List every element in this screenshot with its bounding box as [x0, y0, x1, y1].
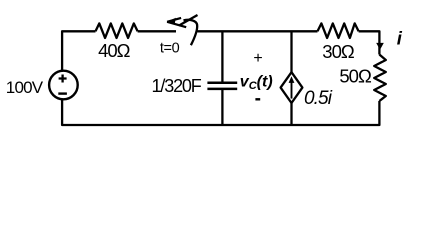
resistor R2 30ohm zigzag: [318, 23, 359, 38]
svg-text:+: +: [253, 50, 262, 67]
wire: left vertical + top-left run to R1: [62, 31, 95, 70]
label minus below vC(t): [255, 98, 260, 100]
wire: switch right contact to R2, through nodes: [198, 30, 318, 32]
svg-text:t=0: t=0: [160, 41, 180, 57]
switch t=0 arrowhead arms: [167, 18, 186, 27]
current arrow i on right wire: [376, 43, 384, 50]
wire: R3 bottom, bottom run, up to source bottom: [62, 100, 379, 125]
voltage source V1 circle: [49, 71, 78, 100]
svg-text:1/320F: 1/320F: [152, 76, 202, 96]
svg-text:50Ω: 50Ω: [339, 66, 372, 87]
wire: R2 to top-right corner and down to R3: [359, 31, 380, 54]
switch t=0 blade: [179, 15, 198, 26]
switch t=0 motion arc: [184, 20, 198, 45]
svg-text:vC(t): vC(t): [240, 74, 273, 93]
wire: R1 to switch left contact: [138, 30, 176, 32]
svg-text:40Ω: 40Ω: [98, 40, 131, 61]
svg-text:i: i: [397, 28, 403, 49]
resistor R3 50ohm vertical zigzag: [374, 55, 386, 102]
capacitor C plates: [207, 83, 237, 89]
resistor R1 40ohm zigzag: [96, 23, 138, 38]
dependent source arrow shaft: [291, 81, 293, 99]
voltage source minus sign: [58, 92, 67, 94]
dependent source branch bottom wire: [290, 103, 292, 125]
dependent current source diamond: [281, 72, 303, 103]
voltage source plus sign: [59, 75, 67, 83]
dependent source arrowhead: [289, 76, 295, 83]
capacitor C branch top wire: [221, 31, 223, 81]
switch t=0 arrowhead tip fill: [167, 18, 176, 25]
svg-text:100V: 100V: [6, 78, 44, 97]
capacitor C branch bottom wire: [221, 90, 223, 125]
dependent source branch top wire: [290, 31, 292, 72]
svg-text:0.5i: 0.5i: [304, 88, 333, 109]
svg-text:30Ω: 30Ω: [322, 41, 355, 62]
